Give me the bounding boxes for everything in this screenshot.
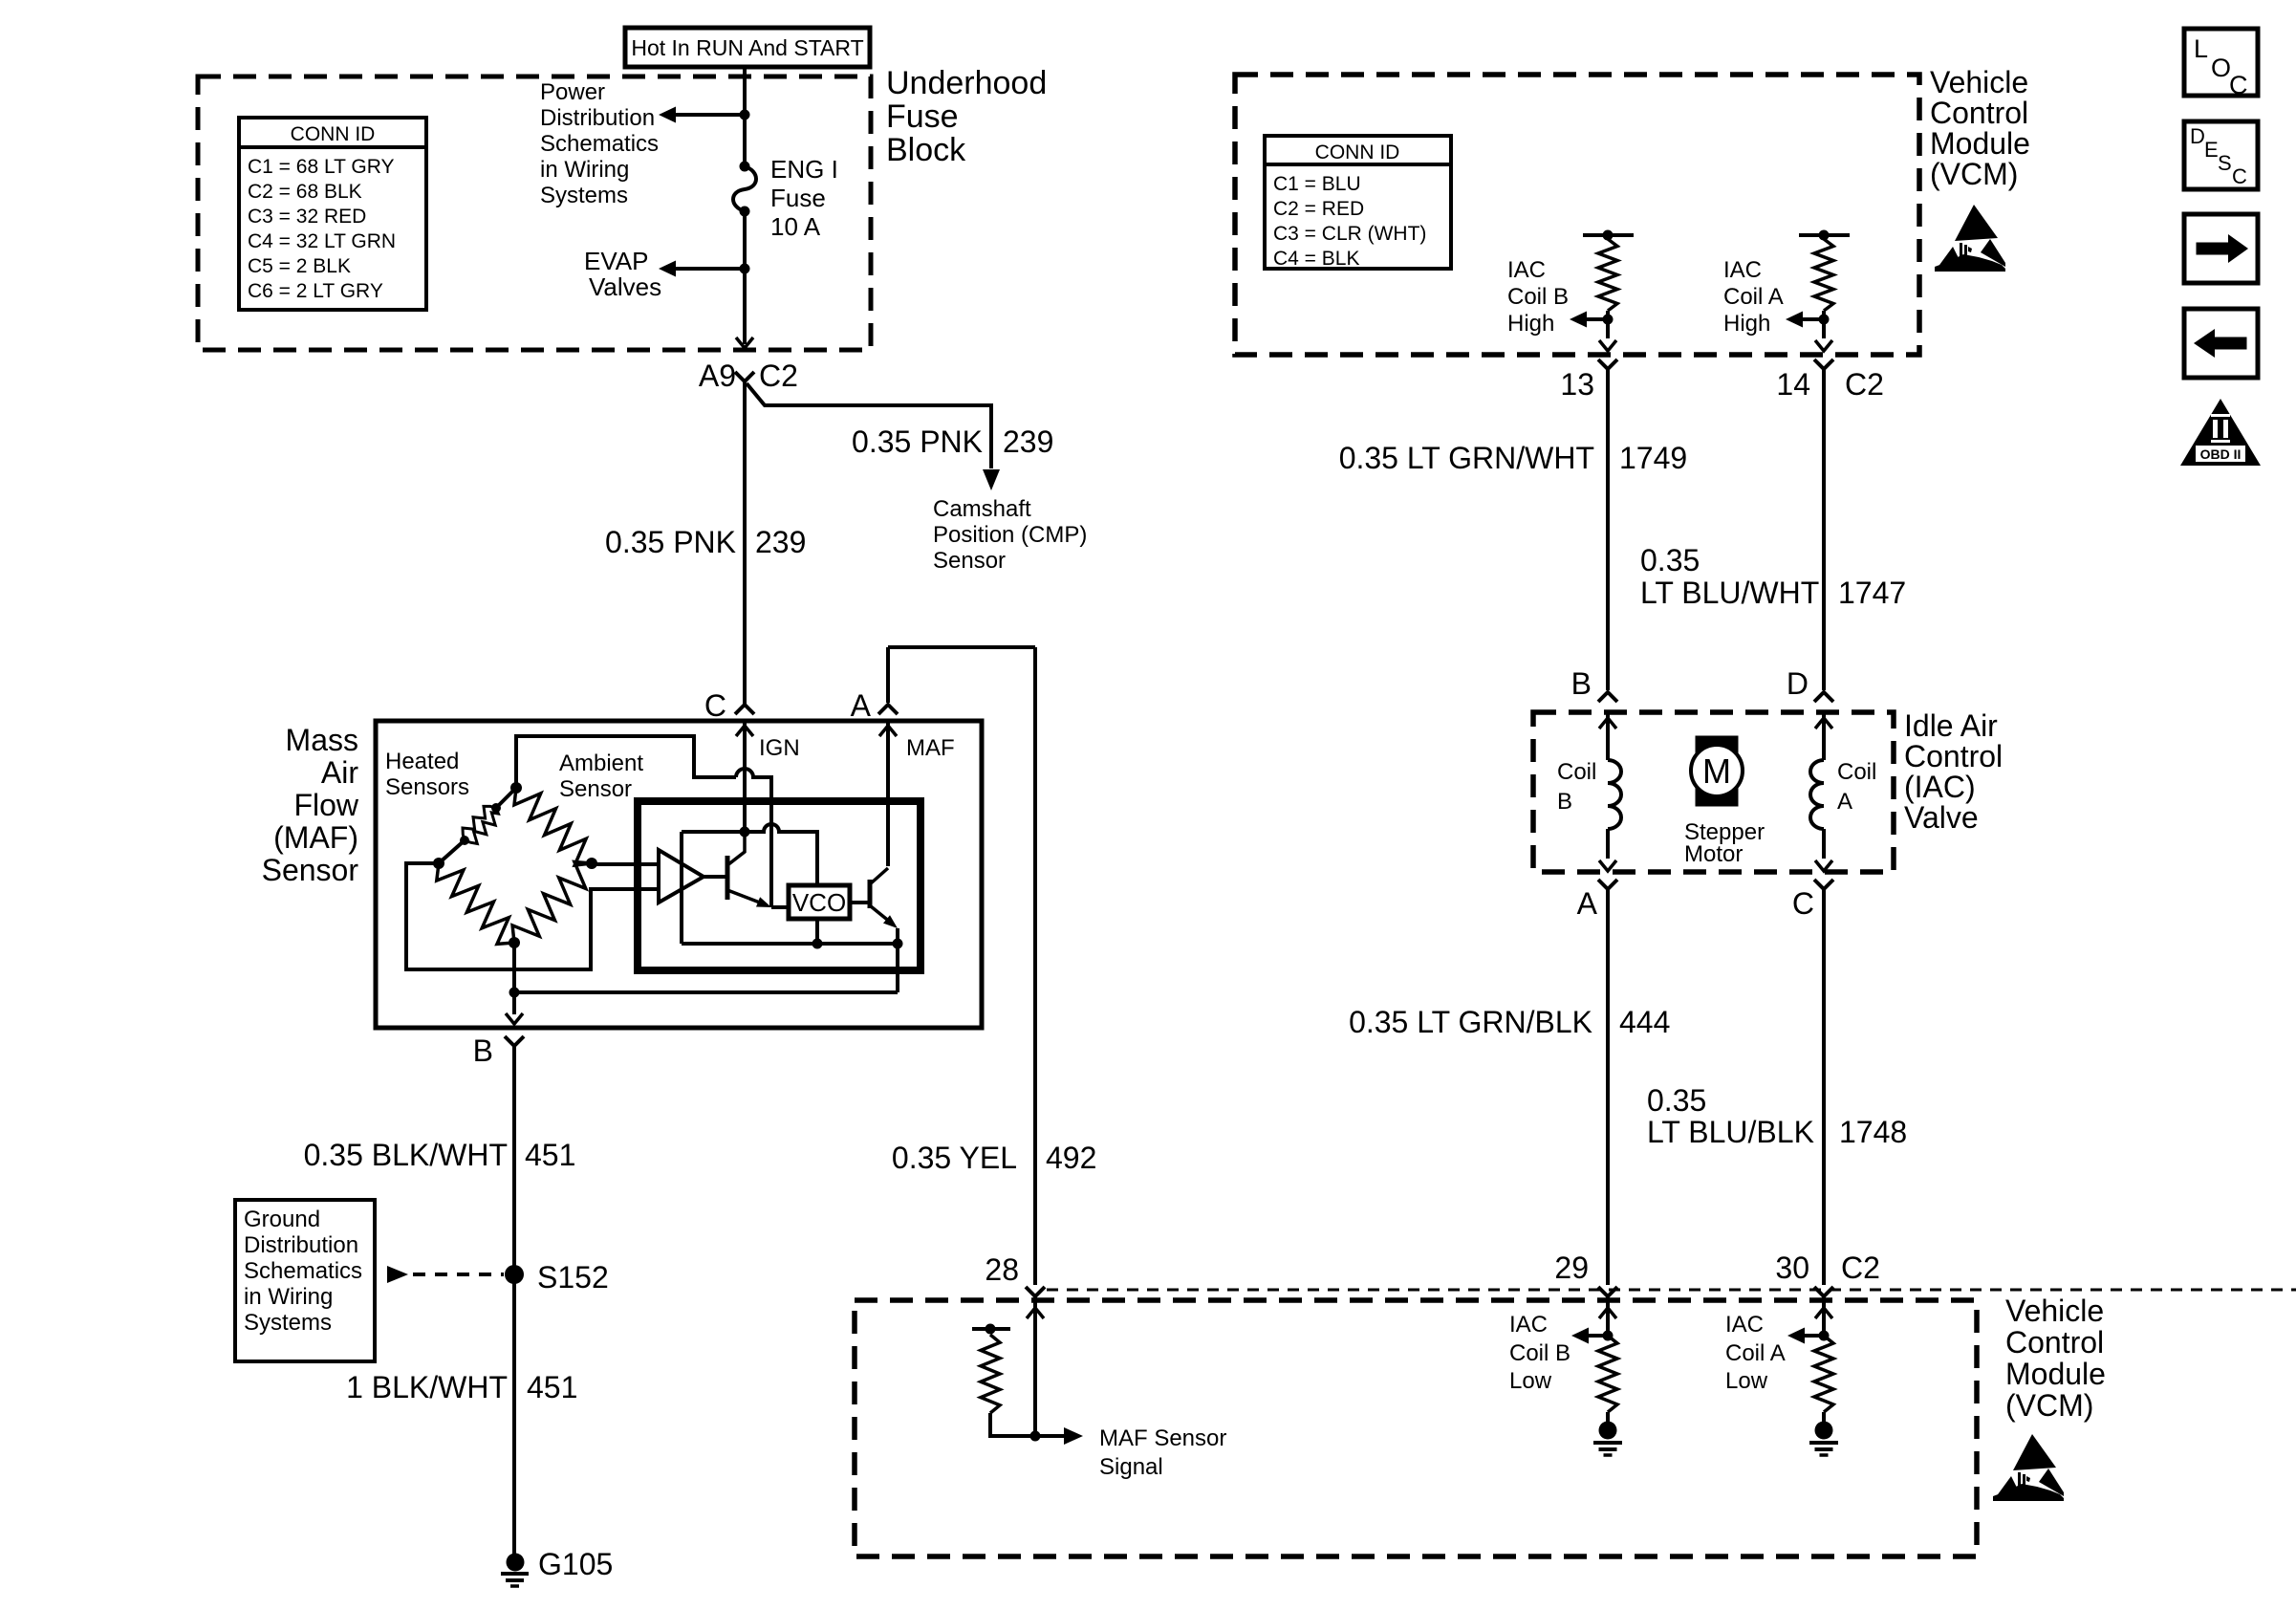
- connector pin 30: [1814, 1287, 1833, 1296]
- icon forward arrow: [2184, 214, 2258, 283]
- node bridge left: [433, 858, 444, 869]
- connector pin 13: [1598, 359, 1617, 369]
- arrow MAF into box: [879, 726, 897, 736]
- connector C2 dashed line: [1047, 1289, 2296, 1292]
- svg-text:L: L: [2194, 34, 2208, 63]
- connector A9 C2: [735, 372, 754, 381]
- resistor bridge lower-right: [512, 862, 592, 944]
- resistor IAC Coil A Low driver + ground: [1815, 1308, 1832, 1318]
- svg-text:B: B: [1571, 666, 1592, 701]
- node bridge bottom: [509, 937, 520, 948]
- svg-text:Distribution: Distribution: [540, 105, 655, 131]
- ground distribution reference box: [235, 1200, 375, 1361]
- wire MAF pin A vertical: [886, 647, 890, 703]
- svg-text:A: A: [1837, 789, 1852, 815]
- svg-text:A: A: [1577, 886, 1598, 921]
- svg-text:VCO: VCO: [792, 888, 846, 917]
- connector pin 14: [1814, 359, 1833, 369]
- svg-text:LT BLU/BLK: LT BLU/BLK: [1647, 1115, 1814, 1149]
- svg-text:(VCM): (VCM): [2005, 1388, 2093, 1423]
- svg-text:444: 444: [1619, 1005, 1670, 1039]
- stepper motor M1: [1696, 736, 1738, 806]
- svg-text:Module: Module: [1930, 126, 2030, 161]
- arrow exiting fuse block: [736, 337, 753, 348]
- svg-text:IAC: IAC: [1507, 257, 1546, 283]
- svg-text:Air: Air: [321, 755, 358, 790]
- node bridge right: [586, 858, 597, 869]
- svg-text:C4 = BLK: C4 = BLK: [1273, 248, 1359, 270]
- svg-text:High: High: [1723, 311, 1770, 337]
- svg-text:Flow: Flow: [293, 788, 358, 822]
- connector at MAF pin B: [505, 1036, 524, 1046]
- svg-text:C6 = 2 LT GRY: C6 = 2 LT GRY: [248, 280, 383, 302]
- svg-text:Systems: Systems: [244, 1310, 332, 1336]
- resistor heated sensor 1: [463, 806, 496, 840]
- svg-text:0.35 PNK: 0.35 PNK: [852, 424, 983, 459]
- svg-text:1749: 1749: [1619, 441, 1687, 475]
- svg-text:D: D: [2190, 124, 2205, 148]
- connector ID table (fuse block): [239, 118, 426, 310]
- svg-text:Ambient: Ambient: [559, 751, 643, 776]
- wire collector node hop to VCO: [745, 824, 817, 885]
- arrow IGN into MAF: [736, 726, 753, 736]
- svg-text:(MAF): (MAF): [273, 820, 358, 855]
- svg-text:1 BLK/WHT: 1 BLK/WHT: [346, 1370, 508, 1404]
- svg-text:0.35 LT GRN/BLK: 0.35 LT GRN/BLK: [1349, 1005, 1592, 1039]
- wire to Power Distribution arrow: [675, 113, 745, 117]
- icon DESC: [2184, 121, 2258, 189]
- node bridge top: [510, 782, 522, 794]
- svg-text:0.35: 0.35: [1647, 1083, 1706, 1118]
- svg-text:CONN ID: CONN ID: [1315, 141, 1400, 163]
- power label box Hot In RUN And START: [625, 28, 870, 67]
- arrow from ground schematics: [387, 1266, 408, 1283]
- svg-text:IAC: IAC: [1509, 1312, 1548, 1338]
- connector at MAF pin C: [735, 705, 754, 714]
- svg-text:C1 = 68 LT GRY: C1 = 68 LT GRY: [248, 156, 395, 178]
- wire bridge top to IC: [516, 736, 736, 788]
- node bridge bottom to ground rail: [509, 988, 520, 998]
- svg-text:Schematics: Schematics: [540, 131, 659, 157]
- svg-text:Schematics: Schematics: [244, 1258, 362, 1284]
- node heated pair top: [491, 803, 501, 813]
- svg-text:Signal: Signal: [1099, 1454, 1163, 1480]
- svg-text:Fuse: Fuse: [886, 98, 959, 135]
- wire IAC C to pin 30: [1822, 889, 1826, 1285]
- svg-text:239: 239: [755, 525, 806, 559]
- VCM dashed box (top): [1235, 75, 1919, 355]
- svg-text:29: 29: [1554, 1251, 1589, 1285]
- svg-text:E: E: [2204, 138, 2219, 162]
- svg-text:C2: C2: [1841, 1251, 1880, 1285]
- svg-text:0.35 BLK/WHT: 0.35 BLK/WHT: [304, 1138, 508, 1172]
- wire left node loop to amp: [406, 863, 659, 969]
- connector at pin 28: [1026, 1287, 1045, 1296]
- svg-text:D: D: [1787, 666, 1809, 701]
- wire right node to amp: [592, 862, 659, 866]
- svg-text:S: S: [2218, 151, 2232, 175]
- svg-text:28: 28: [985, 1252, 1019, 1287]
- fuse ENG I 10 A: [740, 162, 750, 172]
- svg-text:IGN: IGN: [759, 735, 800, 761]
- wire VCO out to Q2 base: [850, 901, 870, 904]
- svg-text:Heated: Heated: [385, 749, 459, 774]
- ESD warning symbol (top VCM): [1935, 205, 2005, 272]
- svg-text:IAC: IAC: [1725, 1312, 1764, 1338]
- svg-text:Low: Low: [1725, 1368, 1768, 1394]
- svg-text:1747: 1747: [1838, 576, 1906, 610]
- splice node S152: [505, 1265, 524, 1284]
- arrow into pin 28: [1027, 1308, 1044, 1318]
- connector IAC pin C: [1814, 880, 1833, 889]
- wire 0.35 YEL 492: [1033, 647, 1037, 1285]
- connector IAC pin D: [1814, 692, 1833, 702]
- wire MAF sensor signal arrow: [1035, 1434, 1064, 1438]
- svg-text:(IAC): (IAC): [1904, 770, 1976, 804]
- svg-text:Underhood: Underhood: [886, 65, 1047, 101]
- node junction to Power Distribution: [740, 110, 750, 120]
- svg-text:Coil B: Coil B: [1507, 284, 1569, 310]
- arrow into IAC B: [1599, 718, 1616, 729]
- svg-text:C2 = RED: C2 = RED: [1273, 198, 1364, 220]
- node VCO bottom rail: [812, 939, 823, 949]
- svg-text:Sensors: Sensors: [385, 774, 469, 800]
- resistor heated sensor 2: [465, 808, 498, 844]
- IAC valve dashed box: [1533, 712, 1894, 872]
- transistor Q1 base bar: [726, 856, 730, 900]
- wire 14 to IAC D: [1822, 369, 1826, 690]
- node Q1 collector junction: [740, 827, 750, 838]
- svg-text:C4 = 32 LT GRN: C4 = 32 LT GRN: [248, 230, 396, 252]
- MAF IC box: [638, 801, 921, 970]
- connector IAC pin B: [1598, 692, 1617, 702]
- svg-text:Sensor: Sensor: [262, 853, 359, 887]
- svg-text:LT BLU/WHT: LT BLU/WHT: [1640, 576, 1819, 610]
- svg-text:Coil A: Coil A: [1723, 284, 1784, 310]
- svg-text:OBD II: OBD II: [2200, 446, 2242, 462]
- svg-text:0.35: 0.35: [1640, 543, 1700, 577]
- wire branch to CMP sensor: [747, 383, 991, 468]
- arrow to CMP sensor: [983, 469, 1000, 490]
- node Q2 emitter rail: [893, 939, 903, 949]
- wire from Hot In RUN to fuse: [743, 67, 747, 166]
- node heated pair bottom: [460, 836, 469, 845]
- svg-text:Vehicle: Vehicle: [2005, 1294, 2104, 1328]
- node junction to EVAP valves: [740, 264, 750, 274]
- svg-text:492: 492: [1046, 1141, 1096, 1175]
- svg-text:0.35 YEL: 0.35 YEL: [892, 1141, 1017, 1175]
- connector at MAF pin A: [878, 705, 898, 714]
- resistor IAC Coil B Low driver + ground: [1599, 1308, 1616, 1318]
- svg-text:14: 14: [1776, 367, 1810, 402]
- connector ID table (VCM): [1265, 136, 1451, 269]
- svg-text:0.35 PNK: 0.35 PNK: [605, 525, 736, 559]
- arrow into IAC D: [1815, 718, 1832, 729]
- MAF sensor box: [376, 721, 982, 1028]
- svg-text:Control: Control: [2005, 1325, 2104, 1360]
- svg-text:Motor: Motor: [1684, 841, 1743, 867]
- transistor Q2 emitter: [871, 906, 891, 923]
- VCM dashed box (bottom): [855, 1300, 1977, 1556]
- svg-text:Idle Air: Idle Air: [1904, 708, 1998, 743]
- wire coil A to pin C: [1822, 829, 1826, 859]
- transistor Q2 collector: [871, 868, 888, 883]
- svg-text:G105: G105: [538, 1547, 613, 1581]
- svg-text:EVAP: EVAP: [584, 247, 648, 275]
- VCO box U2: [789, 885, 850, 919]
- svg-text:MAF Sensor: MAF Sensor: [1099, 1425, 1226, 1451]
- svg-text:Coil B: Coil B: [1509, 1340, 1570, 1366]
- wire fuse to EVAP junction: [743, 211, 747, 344]
- connector IAC pin A: [1598, 880, 1617, 889]
- svg-text:Distribution: Distribution: [244, 1232, 358, 1258]
- svg-text:C3 = CLR (WHT): C3 = CLR (WHT): [1273, 223, 1426, 245]
- op-amp buffer U1: [659, 850, 704, 903]
- wire heated pair to left node: [439, 840, 465, 863]
- svg-text:Valves: Valves: [589, 272, 661, 301]
- wire to EVAP arrow: [675, 267, 745, 271]
- svg-text:B: B: [1557, 789, 1572, 815]
- svg-text:Sensor: Sensor: [559, 776, 632, 802]
- svg-text:Mass: Mass: [286, 723, 358, 757]
- arrow MAF Sensor Signal: [1064, 1427, 1083, 1445]
- svg-text:A9: A9: [699, 359, 736, 393]
- wire 13 to IAC B: [1606, 369, 1610, 690]
- svg-text:C2 = 68 BLK: C2 = 68 BLK: [248, 181, 362, 203]
- svg-text:C2: C2: [1845, 367, 1884, 402]
- arrow to EVAP Valves: [659, 261, 676, 277]
- svg-text:(VCM): (VCM): [1930, 157, 2018, 191]
- wire VCO bottom: [815, 919, 819, 944]
- wire IC bottom rail: [682, 942, 899, 946]
- resistor ambient sensor: [514, 788, 592, 865]
- wire Q1 emitter to VCO: [771, 905, 789, 909]
- wire hop over IGN wire: [736, 769, 771, 907]
- transistor Q1 collector: [727, 832, 745, 865]
- resistor MAF signal pullup: [972, 1327, 1010, 1331]
- wire Q2 emitter down: [896, 928, 899, 944]
- icon OBD II: [2180, 399, 2261, 466]
- svg-text:O: O: [2211, 54, 2231, 82]
- svg-text:ENG I: ENG I: [770, 155, 838, 184]
- connector pin 29: [1598, 1287, 1617, 1296]
- svg-text:in Wiring: in Wiring: [244, 1284, 333, 1310]
- svg-text:MAF: MAF: [906, 735, 955, 761]
- svg-text:Module: Module: [2005, 1357, 2106, 1391]
- svg-text:239: 239: [1003, 424, 1053, 459]
- resistor IAC Coil B High driver: [1583, 233, 1634, 237]
- svg-text:C3 = 32 RED: C3 = 32 RED: [248, 206, 366, 228]
- svg-text:Coil A: Coil A: [1725, 1340, 1786, 1366]
- resistor IAC Coil A High driver: [1799, 233, 1850, 237]
- svg-text:Fuse: Fuse: [770, 184, 826, 212]
- wire IAC A to pin 29: [1606, 889, 1610, 1285]
- svg-text:451: 451: [525, 1138, 575, 1172]
- svg-text:Block: Block: [886, 132, 966, 168]
- svg-text:in Wiring: in Wiring: [540, 157, 629, 183]
- inductor Coil B: [1608, 760, 1621, 829]
- svg-text:Control: Control: [1904, 739, 2003, 773]
- wire feedback to collector node: [682, 830, 745, 834]
- dashed wire to S152: [413, 1273, 504, 1276]
- wire rail down to ground rail: [896, 944, 899, 992]
- svg-text:Hot In RUN And START: Hot In RUN And START: [631, 35, 863, 60]
- inductor Coil A: [1810, 760, 1824, 829]
- svg-text:CONN ID: CONN ID: [291, 123, 376, 145]
- svg-text:A: A: [851, 688, 872, 723]
- arrow to MAF pin B: [506, 1013, 523, 1024]
- wire A9 to MAF pin C: [743, 381, 747, 705]
- wire S152 to G105: [512, 1274, 516, 1562]
- arrow out of IAC C: [1815, 860, 1832, 871]
- wire feedback vertical: [680, 832, 683, 944]
- svg-text:Coil: Coil: [1557, 759, 1596, 785]
- svg-text:Camshaft: Camshaft: [933, 496, 1031, 522]
- wire coil B to pin A: [1606, 829, 1610, 859]
- svg-text:M: M: [1702, 751, 1731, 791]
- svg-text:IAC: IAC: [1723, 257, 1762, 283]
- wire MAF B to S152: [512, 1046, 516, 1274]
- transistor Q2 base bar: [868, 880, 873, 908]
- svg-text:Low: Low: [1509, 1368, 1552, 1394]
- icon back arrow: [2184, 309, 2258, 378]
- icon LOC: [2184, 29, 2258, 96]
- svg-text:C: C: [1792, 886, 1814, 921]
- svg-text:S152: S152: [537, 1260, 609, 1295]
- Underhood Fuse Block dashed box: [198, 76, 871, 350]
- svg-text:C: C: [2229, 71, 2248, 99]
- wire IGN entering MAF: [743, 721, 747, 832]
- svg-text:10 A: 10 A: [770, 212, 821, 241]
- svg-text:Systems: Systems: [540, 183, 628, 208]
- wire top node to heated pair: [496, 788, 516, 808]
- svg-text:High: High: [1507, 311, 1554, 337]
- ESD warning symbol (bottom VCM): [1993, 1434, 2064, 1501]
- svg-text:0.35 LT GRN/WHT: 0.35 LT GRN/WHT: [1339, 441, 1594, 475]
- svg-text:30: 30: [1775, 1251, 1809, 1285]
- svg-text:Position (CMP): Position (CMP): [933, 522, 1087, 548]
- svg-text:Sensor: Sensor: [933, 548, 1006, 574]
- node MAF signal junction: [1030, 1431, 1041, 1442]
- svg-text:Coil: Coil: [1837, 759, 1876, 785]
- svg-text:1748: 1748: [1839, 1115, 1907, 1149]
- svg-text:13: 13: [1560, 367, 1594, 402]
- svg-text:C5 = 2 BLK: C5 = 2 BLK: [248, 255, 351, 277]
- wire MAF pin A to yellow wire: [888, 645, 1035, 649]
- svg-text:Ground: Ground: [244, 1207, 320, 1232]
- arrow to Power Distribution Schematics: [659, 107, 676, 123]
- svg-text:C1 = BLU: C1 = BLU: [1273, 173, 1361, 195]
- svg-text:B: B: [473, 1033, 493, 1068]
- svg-text:C: C: [704, 688, 726, 723]
- wire bridge bottom to pin B: [512, 943, 516, 1014]
- svg-text:Control: Control: [1930, 96, 2028, 130]
- svg-text:C2: C2: [759, 359, 798, 393]
- wire ground rail: [514, 990, 898, 994]
- svg-text:Power: Power: [540, 79, 605, 105]
- svg-text:451: 451: [527, 1370, 577, 1404]
- svg-text:C: C: [2232, 164, 2247, 188]
- resistor bridge lower-left: [437, 863, 514, 944]
- arrow out of IAC A: [1599, 860, 1616, 871]
- wire U1 output to Q1 base: [704, 875, 727, 879]
- ground G105: [507, 1554, 525, 1572]
- svg-text:Vehicle: Vehicle: [1930, 65, 2028, 99]
- svg-text:Valve: Valve: [1904, 800, 1979, 835]
- transistor Q1 emitter: [727, 890, 765, 904]
